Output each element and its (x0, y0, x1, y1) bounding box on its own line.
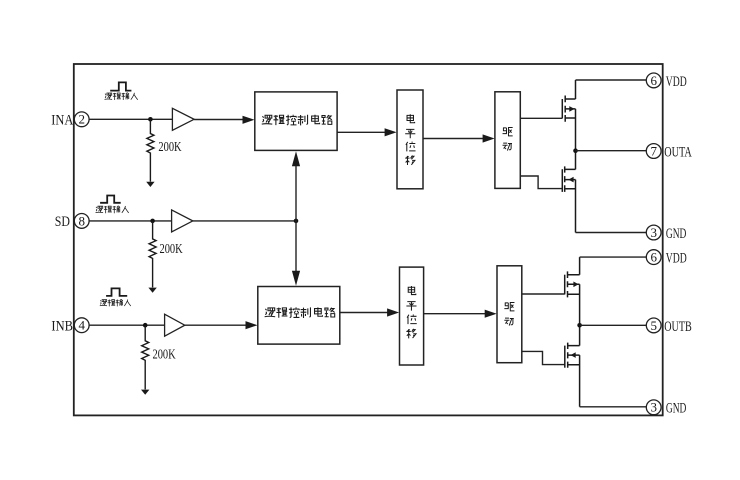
level shift block 2 电平位移 (400, 267, 424, 365)
svg-text:4: 4 (78, 318, 85, 333)
label VDD (B) (666, 251, 687, 267)
label VDD (A) (666, 74, 687, 90)
wire GND B (580, 406, 647, 408)
resistor 200K (SD) (149, 221, 183, 288)
wire INA buffer to logic control, arrow (194, 116, 254, 124)
node junction INA (148, 117, 153, 122)
IC outline box (74, 64, 663, 415)
label INB (51, 318, 73, 334)
MOSFET Q2 low-side A (562, 151, 575, 233)
svg-text:SD: SD (55, 214, 70, 230)
node junction OUTB (577, 323, 582, 328)
wire logic control 1 to level shift 1, arrow (337, 128, 397, 136)
logic-input pulse symbol (INA) (110, 82, 131, 90)
wire INB buffer to logic control 2, arrow (185, 321, 258, 329)
logic-input pulse symbol (SD) (100, 196, 121, 203)
buffer amplifier (INA) (172, 108, 194, 130)
level shift block 1 电平位移 (397, 90, 423, 189)
svg-text:INB: INB (51, 318, 73, 334)
label GND (A) (666, 226, 687, 242)
pin 7 OUTA (646, 143, 661, 158)
svg-text:VDD: VDD (666, 251, 687, 267)
MOSFET Q1 high-side A (562, 80, 575, 151)
svg-text:200K: 200K (160, 242, 183, 257)
label OUTB (664, 319, 692, 335)
label GND (B) (666, 401, 687, 417)
wire SD branch down to logic control 2, arrow (292, 221, 300, 286)
pin 6 VDD (A) (646, 73, 661, 88)
node junction INB (143, 323, 148, 328)
svg-text:6: 6 (650, 250, 657, 265)
label 逻辑输入 (INA) (105, 93, 138, 100)
label OUTA (664, 145, 692, 161)
buffer amplifier (SD) (172, 210, 193, 232)
ground (INA) (146, 182, 154, 187)
pin 3 GND (A) (646, 225, 661, 240)
svg-text:200K: 200K (153, 347, 176, 362)
wire GND A (576, 232, 647, 234)
svg-text:5: 5 (650, 318, 657, 333)
svg-text:7: 7 (650, 143, 657, 158)
resistor 200K (INA) (147, 119, 182, 181)
MOSFET Q4 low-side B (565, 325, 580, 407)
svg-text:3: 3 (650, 400, 657, 415)
logic-input pulse symbol (INB) (106, 288, 127, 296)
buffer amplifier (INB) (165, 314, 185, 336)
wire drive 1 to low-side gate (step) (520, 176, 562, 189)
label INA (51, 112, 73, 128)
svg-text:3: 3 (650, 225, 657, 240)
wire INB pin to buffer (89, 324, 165, 326)
svg-text:200K: 200K (158, 140, 181, 155)
wire SD branch up to logic control 1, arrow (292, 151, 300, 221)
ground (SD) (148, 288, 156, 293)
resistor 200K (INB) (142, 325, 176, 389)
svg-text:OUTB: OUTB (664, 319, 692, 335)
svg-text:VDD: VDD (666, 74, 687, 90)
wire INA pin to buffer (89, 118, 172, 120)
label SD (55, 214, 70, 230)
svg-text:8: 8 (78, 213, 85, 228)
wire SD buffer to vertical branch (193, 220, 296, 222)
wire level shift 2 to drive 2, arrow (424, 310, 497, 318)
svg-text:OUTA: OUTA (664, 145, 692, 161)
wire VDD A (576, 79, 647, 81)
pin 6 VDD (B) (646, 250, 661, 265)
svg-text:6: 6 (650, 73, 657, 88)
wire drive 2 to low-side gate (step) (522, 351, 565, 364)
wire drive 2 to high-side gate (522, 293, 565, 295)
node junction SD (150, 219, 155, 224)
wire level shift 1 to drive 1, arrow (423, 134, 495, 142)
svg-text:INA: INA (51, 112, 73, 128)
pin 8 (SD) (74, 213, 89, 228)
wire OUTA (576, 150, 647, 152)
label 逻辑输入 (SD) (96, 206, 129, 213)
wire SD pin to buffer (89, 220, 172, 222)
pin 2 (INA) (74, 112, 89, 127)
svg-text:GND: GND (666, 401, 687, 417)
wire drive 1 to high-side gate (520, 117, 562, 119)
pin 3 GND (B) (646, 400, 661, 415)
svg-text:2: 2 (78, 112, 85, 127)
label 逻辑输入 (INB) (100, 299, 131, 306)
drive block 2 驱动 (497, 266, 522, 363)
wire VDD B (580, 256, 647, 258)
node junction OUTA (573, 148, 578, 153)
pin 5 OUTB (646, 318, 661, 333)
svg-text:GND: GND (666, 226, 687, 242)
node junction SD branch (294, 219, 299, 224)
wire logic control 2 to level shift 2, arrow (340, 308, 399, 316)
logic control block 2 逻辑控制电路 (258, 287, 340, 345)
wire OUTB (580, 324, 647, 326)
ground (INB) (141, 390, 149, 395)
pin 4 (INB) (74, 318, 89, 333)
MOSFET Q3 high-side B (565, 257, 580, 325)
logic control block 1 逻辑控制电路 (255, 92, 337, 150)
drive block 1 驱动 (495, 92, 520, 189)
